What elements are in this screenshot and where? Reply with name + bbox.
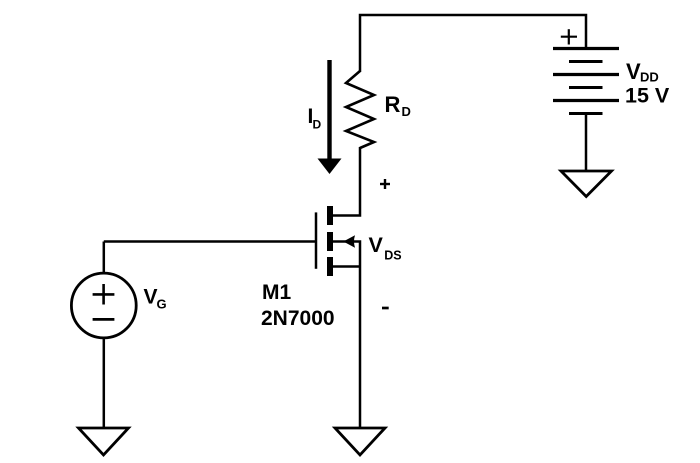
body connection with arrow [332,242,360,267]
wire: M1 source to ground [359,267,362,429]
channel bar (body) [327,232,333,251]
svg-text:2N7000: 2N7000 [261,307,335,330]
ground (VDD) [561,171,612,197]
svg-text:M1: M1 [262,281,291,304]
source connection [332,265,360,268]
ground (VG) [79,428,129,455]
svg-text:R: R [385,92,401,117]
label - (VDS minus) [382,307,389,310]
wire: RD bottom to M1 drain [332,147,360,216]
svg-text:V: V [369,233,384,257]
channel bar (drain) [327,206,333,225]
wire: battery negative to ground [585,114,588,171]
svg-text:D: D [402,104,411,119]
gate line [315,212,318,268]
ground (source) [335,428,385,455]
label + (battery positive) [561,36,577,38]
svg-text:DD: DD [640,70,659,85]
wire: VG bottom to ground [103,338,106,428]
wire: VG top to gate wire [103,242,106,274]
label + (VDS plus) [380,183,390,185]
wire: gate wire from VG to M1 gate [104,240,315,243]
svg-text:V: V [144,286,158,309]
svg-text:D: D [313,118,322,132]
voltage source VG [71,273,136,338]
svg-text:V: V [626,59,641,84]
battery VDD [553,49,619,114]
transistor M1 (2N7000 NMOS) [316,206,360,276]
svg-text:DS: DS [384,249,401,263]
svg-text:15 V: 15 V [625,84,670,108]
current arrow ID [327,60,331,160]
resistor RD [346,71,374,148]
wire: top rail from RD top to VDD positive [360,15,586,72]
channel bar (source) [327,257,333,276]
svg-text:G: G [157,297,167,312]
